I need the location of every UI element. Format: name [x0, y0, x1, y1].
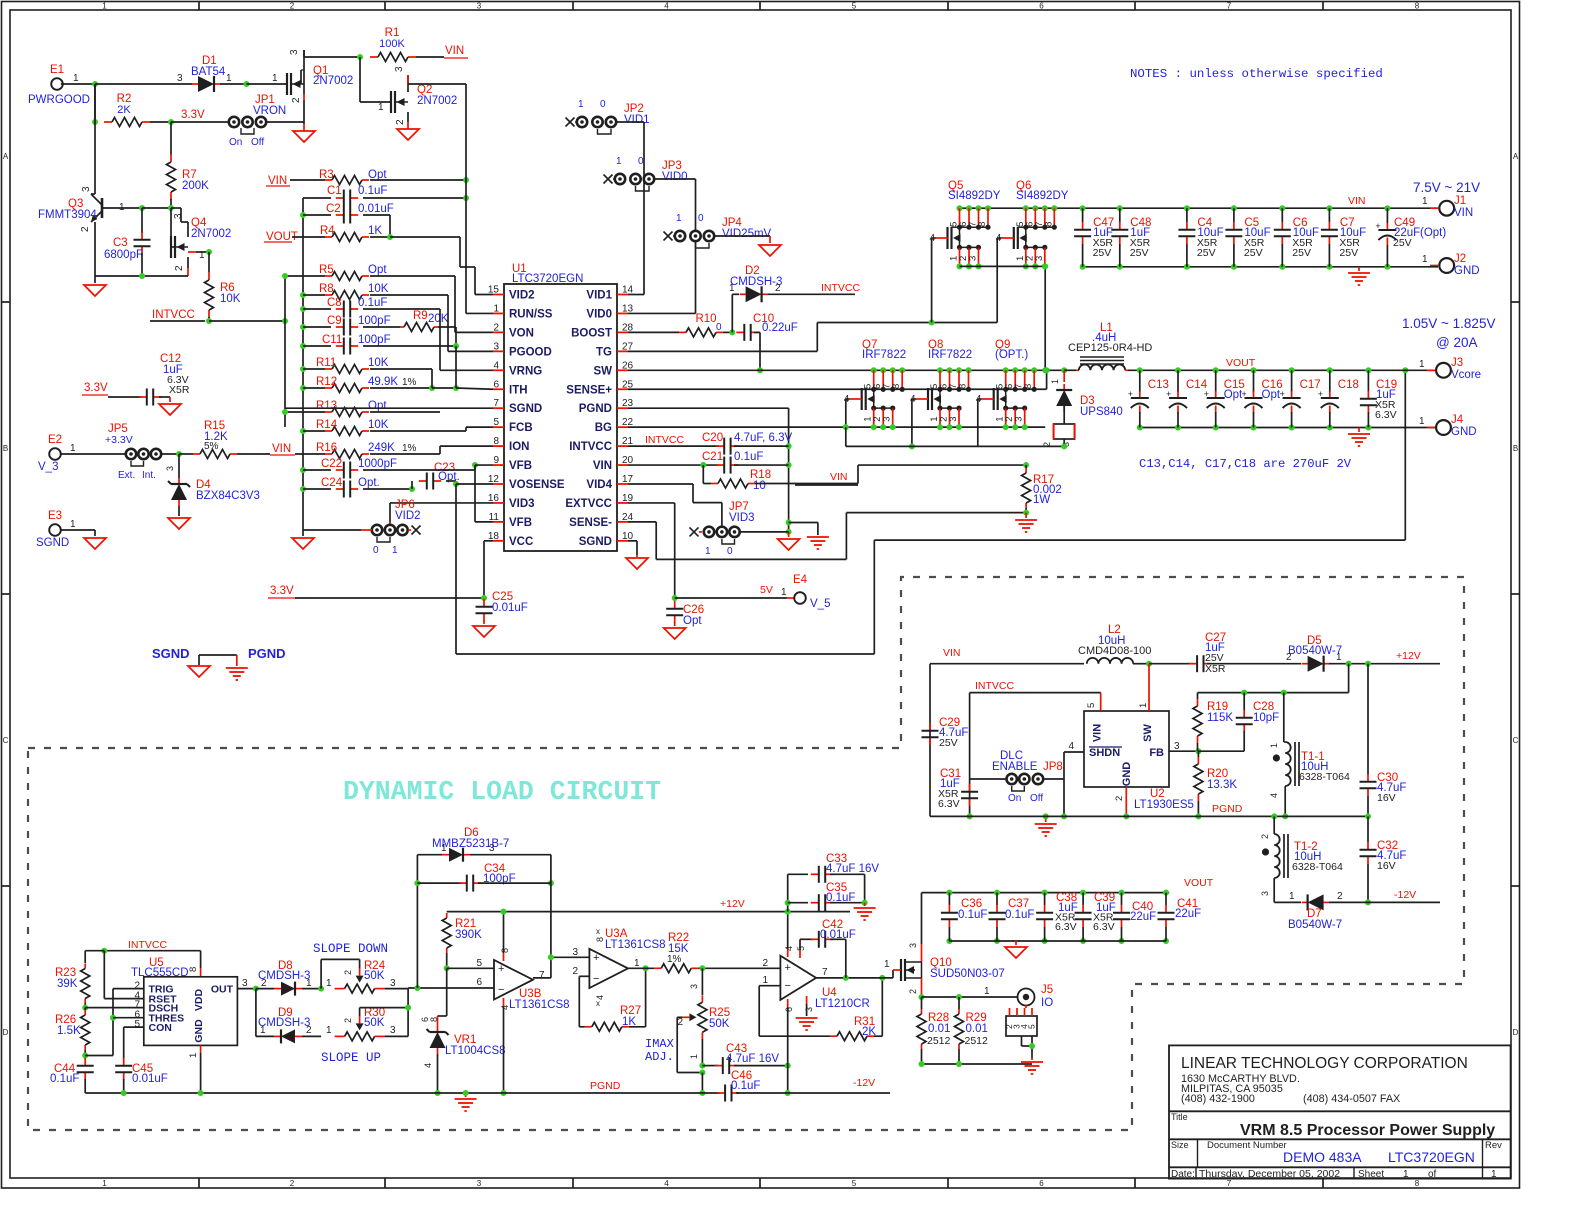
svg-text:VID3: VID3: [509, 498, 535, 510]
svg-text:@ 20A: @ 20A: [1436, 335, 1477, 350]
svg-text:SLOPE UP: SLOPE UP: [321, 1051, 381, 1065]
svg-text:DYNAMIC LOAD CIRCUIT: DYNAMIC LOAD CIRCUIT: [343, 777, 661, 807]
svg-text:SW: SW: [593, 365, 612, 377]
svg-text:1: 1: [1138, 703, 1149, 708]
svg-text:5%: 5%: [204, 441, 219, 452]
svg-text:Document Number: Document Number: [1207, 1140, 1287, 1151]
svg-text:1W: 1W: [1033, 494, 1050, 506]
svg-text:4: 4: [493, 360, 499, 371]
svg-text:C3: C3: [113, 237, 128, 249]
svg-text:R5: R5: [319, 264, 334, 276]
svg-text:2N7002: 2N7002: [417, 95, 457, 107]
svg-text:16V: 16V: [1377, 792, 1396, 804]
svg-text:VIN: VIN: [1092, 724, 1104, 742]
svg-text:Off: Off: [1030, 793, 1043, 804]
svg-text:PGND: PGND: [590, 1080, 621, 1092]
svg-text:25V: 25V: [1093, 247, 1112, 259]
svg-text:3: 3: [173, 213, 184, 219]
svg-text:0.1uF: 0.1uF: [50, 1073, 79, 1085]
svg-text:SGND: SGND: [152, 646, 190, 661]
svg-text:−: −: [785, 980, 791, 992]
svg-text:1.5K: 1.5K: [57, 1025, 81, 1037]
svg-text:CMDSH-3: CMDSH-3: [258, 1017, 310, 1029]
svg-text:ION: ION: [509, 441, 529, 453]
svg-text:EXTVCC: EXTVCC: [565, 498, 612, 510]
svg-text:6: 6: [493, 379, 499, 390]
svg-text:On: On: [1008, 793, 1021, 804]
svg-text:BAT54: BAT54: [191, 66, 226, 78]
svg-text:3: 3: [572, 947, 578, 958]
svg-text:1: 1: [781, 587, 787, 598]
svg-text:PGND: PGND: [248, 646, 286, 661]
svg-text:SGND: SGND: [579, 536, 612, 548]
svg-text:C11: C11: [322, 334, 342, 346]
svg-text:5: 5: [1027, 1024, 1037, 1029]
svg-text:CMD4D08-100: CMD4D08-100: [1078, 645, 1151, 657]
svg-text:1: 1: [884, 959, 890, 970]
svg-text:2: 2: [1286, 652, 1292, 663]
svg-text:0.1uF: 0.1uF: [358, 297, 387, 309]
svg-text:R16: R16: [316, 442, 337, 454]
svg-text:LTC3720EGN: LTC3720EGN: [512, 273, 583, 285]
svg-text:C9: C9: [327, 315, 342, 327]
svg-text:4: 4: [664, 2, 669, 11]
svg-text:1: 1: [1336, 652, 1342, 663]
svg-text:0.01uF: 0.01uF: [358, 203, 394, 215]
svg-text:ITH: ITH: [509, 384, 528, 396]
svg-text:VFB: VFB: [509, 460, 532, 472]
svg-text:2K: 2K: [117, 104, 131, 116]
svg-text:1: 1: [1289, 891, 1295, 902]
svg-text:LINEAR TECHNOLOGY CORPORATION: LINEAR TECHNOLOGY CORPORATION: [1181, 1055, 1468, 1072]
svg-text:8: 8: [977, 222, 988, 227]
svg-text:SUD50N03-07: SUD50N03-07: [930, 968, 1005, 980]
svg-text:VRM 8.5 Processor Power Supply: VRM 8.5 Processor Power Supply: [1240, 1122, 1495, 1139]
svg-text:x: x: [596, 999, 600, 1008]
svg-text:x: x: [596, 927, 600, 936]
svg-text:6800pF: 6800pF: [104, 249, 143, 261]
svg-text:1: 1: [616, 156, 622, 167]
svg-text:3: 3: [882, 417, 893, 422]
svg-text:4.7uF 16V: 4.7uF 16V: [826, 863, 879, 875]
svg-text:INTVCC: INTVCC: [975, 680, 1015, 692]
svg-text:1%: 1%: [667, 954, 682, 965]
svg-text:2: 2: [291, 97, 302, 103]
svg-text:1: 1: [729, 283, 735, 294]
svg-text:0.22uF: 0.22uF: [762, 322, 798, 334]
svg-text:+: +: [1204, 389, 1209, 399]
svg-text:2: 2: [343, 970, 353, 975]
svg-text:3.3V: 3.3V: [270, 585, 294, 597]
svg-text:JP8: JP8: [1043, 761, 1063, 773]
svg-text:25V: 25V: [1339, 247, 1358, 259]
svg-text:8: 8: [500, 948, 510, 953]
svg-text:GND: GND: [1451, 426, 1477, 438]
svg-text:VID3: VID3: [729, 512, 755, 524]
svg-text:LT1210CR: LT1210CR: [815, 998, 870, 1010]
svg-text:Opt: Opt: [368, 264, 387, 276]
svg-text:Vcore: Vcore: [1451, 369, 1481, 381]
svg-text:3: 3: [1174, 741, 1180, 752]
svg-text:3: 3: [390, 1025, 396, 1036]
svg-text:6.3V: 6.3V: [1375, 409, 1397, 421]
svg-text:PWRGOOD: PWRGOOD: [28, 94, 90, 106]
svg-text:0: 0: [698, 213, 704, 224]
svg-text:+: +: [1318, 389, 1323, 399]
svg-text:2: 2: [775, 283, 781, 294]
svg-text:VCC: VCC: [509, 536, 533, 548]
svg-text:1: 1: [1422, 254, 1428, 265]
svg-text:Off: Off: [251, 137, 264, 148]
svg-text:BOOST: BOOST: [571, 327, 612, 339]
svg-text:LT1004CS8: LT1004CS8: [445, 1045, 506, 1057]
svg-text:25V: 25V: [1130, 247, 1149, 259]
svg-text:0: 0: [638, 156, 644, 167]
svg-text:6: 6: [1039, 1179, 1044, 1188]
svg-text:50K: 50K: [364, 970, 385, 982]
svg-text:0: 0: [727, 546, 733, 557]
svg-text:3: 3: [242, 978, 248, 989]
svg-text:115K: 115K: [1207, 712, 1233, 724]
svg-text:0: 0: [716, 322, 722, 333]
svg-text:−: −: [498, 984, 504, 996]
svg-text:of: of: [1428, 1169, 1437, 1180]
svg-text:Opt: Opt: [368, 400, 387, 412]
svg-text:8: 8: [595, 937, 605, 942]
svg-text:E4: E4: [793, 574, 808, 586]
svg-text:INTVCC: INTVCC: [569, 441, 612, 453]
svg-text:E2: E2: [48, 434, 62, 446]
svg-text:6.3V: 6.3V: [938, 798, 960, 810]
svg-text:R8: R8: [319, 283, 334, 295]
svg-text:C22: C22: [321, 458, 342, 470]
svg-text:1: 1: [1050, 379, 1060, 384]
svg-text:VIN: VIN: [1348, 195, 1366, 207]
svg-text:J3: J3: [1451, 357, 1463, 369]
svg-text:SLOPE DOWN: SLOPE DOWN: [313, 942, 388, 956]
svg-text:+: +: [1242, 389, 1247, 399]
svg-text:C: C: [3, 736, 9, 745]
svg-text:2: 2: [290, 1179, 295, 1188]
svg-text:1: 1: [984, 986, 990, 997]
svg-text:5V: 5V: [760, 584, 773, 596]
svg-text:1: 1: [1491, 1169, 1497, 1180]
svg-text:C20: C20: [702, 432, 723, 444]
svg-text:3: 3: [804, 1007, 814, 1012]
svg-text:C8: C8: [327, 297, 342, 309]
svg-text:C13,C14, C17,C18 are 270uF 2V: C13,C14, C17,C18 are 270uF 2V: [1139, 457, 1352, 471]
svg-text:2N7002: 2N7002: [313, 75, 353, 87]
svg-text:0: 0: [600, 99, 606, 110]
svg-text:X5R: X5R: [169, 384, 190, 396]
svg-text:1: 1: [1419, 359, 1425, 370]
svg-text:2: 2: [1042, 442, 1052, 447]
svg-text:D: D: [1513, 1028, 1519, 1037]
svg-text:10K: 10K: [220, 293, 241, 305]
svg-text:3: 3: [968, 256, 979, 261]
svg-text:5: 5: [493, 417, 499, 428]
svg-text:1: 1: [226, 73, 232, 84]
svg-text:R12: R12: [316, 376, 337, 388]
svg-text:+12V: +12V: [720, 898, 745, 910]
svg-text:4: 4: [664, 1179, 669, 1188]
svg-text:DEMO 483A: DEMO 483A: [1283, 1149, 1362, 1165]
svg-text:1: 1: [493, 303, 499, 314]
svg-text:25V: 25V: [1197, 247, 1216, 259]
svg-text:VIN: VIN: [830, 471, 848, 483]
svg-text:3: 3: [477, 2, 482, 11]
svg-text:0.1uF: 0.1uF: [358, 185, 387, 197]
svg-text:+: +: [1375, 221, 1380, 231]
svg-text:SGND: SGND: [509, 403, 542, 415]
svg-text:100pF: 100pF: [358, 334, 391, 346]
svg-text:C24: C24: [321, 477, 343, 489]
svg-text:PGND: PGND: [1212, 803, 1243, 815]
svg-text:2: 2: [1114, 796, 1125, 801]
svg-text:FMMT3904: FMMT3904: [38, 209, 97, 221]
svg-text:7: 7: [539, 970, 545, 981]
svg-text:2: 2: [343, 1018, 353, 1023]
svg-text:2: 2: [572, 966, 578, 977]
svg-text:39K: 39K: [57, 978, 78, 990]
svg-text:B0540W-7: B0540W-7: [1288, 919, 1342, 931]
svg-text:A: A: [3, 152, 9, 161]
svg-text:6.3V: 6.3V: [1093, 921, 1115, 933]
svg-text:FB: FB: [1149, 747, 1164, 759]
svg-text:5: 5: [134, 1019, 140, 1030]
svg-text:8: 8: [1415, 1179, 1420, 1188]
svg-text:B: B: [1513, 444, 1518, 453]
svg-text:V_5: V_5: [810, 598, 830, 610]
svg-text:SI4892DY: SI4892DY: [948, 190, 1001, 202]
svg-text:IO: IO: [1041, 997, 1053, 1009]
svg-text:C1: C1: [327, 185, 342, 197]
svg-text:IRF7822: IRF7822: [862, 349, 906, 361]
svg-text:1: 1: [676, 213, 682, 224]
svg-text:Rev: Rev: [1485, 1140, 1502, 1151]
svg-text:1: 1: [762, 975, 768, 986]
svg-text:R4: R4: [320, 225, 335, 237]
svg-text:8: 8: [1043, 222, 1054, 227]
svg-text:E3: E3: [48, 510, 62, 522]
svg-text:VFB: VFB: [509, 517, 532, 529]
svg-text:7: 7: [493, 398, 499, 409]
svg-text:IRF7822: IRF7822: [928, 349, 972, 361]
svg-text:6: 6: [476, 977, 482, 988]
svg-text:5: 5: [852, 2, 857, 11]
svg-text:0: 0: [373, 545, 379, 556]
svg-text:0.1uF: 0.1uF: [958, 909, 987, 921]
svg-text:1: 1: [70, 519, 76, 530]
svg-text:6: 6: [1039, 2, 1044, 11]
svg-text:Ext.: Ext.: [118, 470, 135, 481]
svg-text:2: 2: [1260, 834, 1270, 839]
svg-text:Title: Title: [1171, 1112, 1188, 1122]
svg-text:(OPT.): (OPT.): [995, 349, 1028, 361]
svg-text:(408) 434-0507 FAX: (408) 434-0507 FAX: [1303, 1093, 1400, 1105]
svg-text:3: 3: [81, 186, 92, 192]
svg-text:3: 3: [1014, 417, 1025, 422]
svg-text:INTVCC: INTVCC: [821, 282, 861, 294]
svg-text:BG: BG: [595, 422, 612, 434]
svg-text:J5: J5: [1041, 984, 1053, 996]
svg-text:2: 2: [290, 2, 295, 11]
svg-text:3: 3: [1260, 891, 1270, 896]
svg-text:25V: 25V: [939, 737, 958, 749]
svg-text:5: 5: [796, 946, 806, 951]
svg-text:VIN: VIN: [1454, 207, 1473, 219]
svg-text:4: 4: [930, 233, 936, 244]
svg-text:B0540W-7: B0540W-7: [1288, 645, 1342, 657]
svg-text:1: 1: [306, 978, 312, 989]
svg-text:7: 7: [1227, 1179, 1232, 1188]
svg-text:7: 7: [1227, 2, 1232, 11]
svg-text:LTC3720EGN: LTC3720EGN: [1388, 1149, 1475, 1165]
svg-text:On: On: [229, 137, 242, 148]
svg-text:SW: SW: [1142, 724, 1154, 742]
svg-text:+: +: [1166, 389, 1171, 399]
svg-text:VID4: VID4: [586, 479, 612, 491]
svg-text:C: C: [1513, 736, 1519, 745]
svg-text:D: D: [3, 1028, 9, 1037]
svg-text:1%: 1%: [402, 377, 417, 388]
svg-text:3: 3: [493, 341, 499, 352]
svg-text:2512: 2512: [927, 1035, 951, 1047]
svg-text:4: 4: [423, 1063, 433, 1068]
svg-text:+: +: [1128, 389, 1133, 399]
svg-text:R9: R9: [413, 310, 428, 322]
svg-text:VIN: VIN: [268, 175, 287, 187]
svg-text:2: 2: [174, 265, 185, 271]
svg-text:1: 1: [689, 1054, 699, 1059]
svg-text:-12V: -12V: [853, 1077, 875, 1089]
svg-text:1: 1: [705, 546, 711, 557]
svg-text:4: 4: [784, 946, 794, 951]
svg-text:Size: Size: [1171, 1140, 1189, 1150]
svg-text:8: 8: [1415, 2, 1420, 11]
svg-text:3.3V: 3.3V: [84, 382, 108, 394]
svg-text:+: +: [1280, 389, 1285, 399]
svg-text:OUT: OUT: [211, 984, 234, 996]
svg-text:2: 2: [80, 226, 91, 232]
svg-text:INTVCC: INTVCC: [152, 309, 195, 321]
svg-text:SHDN: SHDN: [1089, 747, 1120, 759]
svg-text:SI4892DY: SI4892DY: [1016, 190, 1069, 202]
svg-text:+: +: [498, 963, 504, 975]
svg-text:GND: GND: [193, 1019, 205, 1043]
svg-text:VID25mV: VID25mV: [722, 228, 772, 240]
svg-text:1: 1: [1403, 1169, 1409, 1180]
svg-text:0.01uF: 0.01uF: [492, 602, 528, 614]
svg-text:3.3V: 3.3V: [181, 109, 205, 121]
svg-text:3: 3: [177, 73, 183, 84]
svg-text:1: 1: [102, 2, 107, 11]
svg-text:VDD: VDD: [193, 988, 205, 1011]
svg-text:100pF: 100pF: [358, 315, 391, 327]
svg-text:1: 1: [378, 102, 384, 113]
svg-text:6328-T064: 6328-T064: [1299, 771, 1350, 783]
svg-text:ADJ.: ADJ.: [645, 1050, 674, 1064]
svg-text:1: 1: [1419, 416, 1425, 427]
svg-text:J2: J2: [1454, 253, 1466, 265]
svg-text:FCB: FCB: [509, 422, 533, 434]
svg-text:C21: C21: [702, 451, 723, 463]
svg-text:0.01uF: 0.01uF: [132, 1073, 168, 1085]
svg-text:BZX84C3V3: BZX84C3V3: [196, 490, 260, 502]
svg-text:2: 2: [395, 119, 406, 125]
svg-text:SENSE-: SENSE-: [569, 517, 612, 529]
svg-text:1: 1: [326, 1025, 332, 1036]
svg-text:4.7uF, 6.3V: 4.7uF, 6.3V: [734, 432, 793, 444]
svg-text:1.05V ~ 1.825V: 1.05V ~ 1.825V: [1402, 316, 1495, 331]
svg-text:4.7uF 16V: 4.7uF 16V: [726, 1053, 779, 1065]
svg-text:8: 8: [429, 1017, 439, 1022]
svg-text:49.9K: 49.9K: [368, 376, 398, 388]
svg-text:1: 1: [1269, 743, 1279, 748]
svg-text:0.01: 0.01: [966, 1023, 988, 1035]
svg-text:3: 3: [394, 66, 405, 72]
svg-text:V_3: V_3: [38, 461, 58, 473]
svg-text:VIN: VIN: [445, 45, 464, 57]
svg-text:7: 7: [822, 967, 828, 978]
svg-text:A: A: [1513, 152, 1519, 161]
svg-text:INTVCC: INTVCC: [645, 434, 685, 446]
svg-text:10: 10: [753, 480, 766, 492]
svg-text:CON: CON: [149, 1022, 172, 1034]
svg-text:GND: GND: [1121, 762, 1133, 787]
svg-text:3: 3: [165, 466, 175, 471]
svg-text:+: +: [593, 952, 599, 964]
svg-text:2: 2: [1337, 891, 1343, 902]
svg-text:+3.3V: +3.3V: [105, 434, 133, 446]
svg-text:+12V: +12V: [1396, 650, 1421, 662]
svg-text:5: 5: [1086, 703, 1097, 708]
svg-text:0.1uF: 0.1uF: [731, 1080, 760, 1092]
svg-text:1: 1: [70, 443, 76, 454]
svg-text:PGOOD: PGOOD: [509, 346, 552, 358]
svg-text:VID2: VID2: [509, 290, 535, 302]
svg-text:VOSENSE: VOSENSE: [509, 479, 565, 491]
svg-text:1: 1: [634, 958, 640, 969]
svg-text:1: 1: [188, 1053, 199, 1058]
svg-text:VOUT: VOUT: [1226, 357, 1256, 369]
svg-text:7.5V ~ 21V: 7.5V ~ 21V: [1413, 180, 1480, 195]
svg-text:VID1: VID1: [624, 114, 650, 126]
svg-text:Thursday, December 05, 2002: Thursday, December 05, 2002: [1199, 1168, 1340, 1180]
svg-text:VID0: VID0: [586, 308, 612, 320]
svg-text:5: 5: [476, 958, 482, 969]
svg-text:CEP125-0R4-HD: CEP125-0R4-HD: [1068, 342, 1152, 354]
svg-text:8: 8: [188, 967, 199, 972]
svg-text:VOUT: VOUT: [1184, 877, 1214, 889]
svg-text:10K: 10K: [368, 419, 389, 431]
svg-text:3: 3: [689, 984, 699, 989]
svg-text:VON: VON: [509, 327, 534, 339]
svg-text:8: 8: [958, 384, 969, 389]
svg-text:UPS840: UPS840: [1080, 406, 1123, 418]
svg-text:C18: C18: [1338, 379, 1359, 391]
svg-text:13.3K: 13.3K: [1207, 779, 1237, 791]
svg-text:25V: 25V: [1244, 247, 1263, 259]
svg-text:VRON: VRON: [253, 105, 286, 117]
svg-text:TLC555CD: TLC555CD: [131, 967, 189, 979]
svg-text:3: 3: [390, 978, 396, 989]
svg-text:0.01: 0.01: [928, 1023, 950, 1035]
svg-text:C2: C2: [326, 203, 341, 215]
svg-text:10K: 10K: [368, 283, 389, 295]
svg-text:50K: 50K: [709, 1018, 730, 1030]
svg-text:6328-T064: 6328-T064: [1292, 861, 1343, 873]
